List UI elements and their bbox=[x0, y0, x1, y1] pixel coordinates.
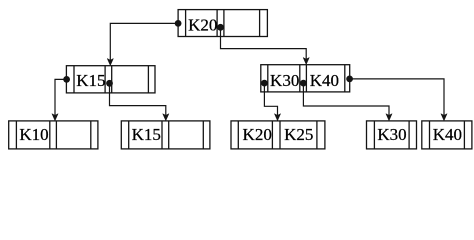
leaf L1 (K10) box bbox=[9, 121, 98, 149]
leaf L4 (K30) box bbox=[367, 121, 417, 149]
leaf L5 key label K40 bbox=[433, 125, 462, 144]
node ROOT box bbox=[178, 10, 267, 37]
wire A.P0 to leaf L1 bbox=[55, 79, 67, 116]
svg-text:K40: K40 bbox=[433, 125, 462, 144]
node ROOT pointer dot P1 bbox=[217, 24, 224, 31]
leaf L1 key label K10 bbox=[19, 125, 48, 144]
leaf L3 key label K20 bbox=[243, 125, 272, 144]
svg-text:K20: K20 bbox=[188, 15, 217, 34]
svg-text:K10: K10 bbox=[19, 125, 48, 144]
arrowhead into leaf L4 bbox=[386, 114, 392, 121]
node ROOT pointer dot P0 bbox=[175, 20, 182, 27]
node B key label K40 bbox=[310, 71, 339, 90]
node A key label K15 bbox=[76, 71, 105, 90]
arrowhead into leaf L2 bbox=[163, 114, 169, 121]
svg-text:K25: K25 bbox=[284, 125, 313, 144]
node B pointer dot P1 bbox=[300, 80, 307, 87]
node ROOT key label K20 bbox=[188, 15, 217, 34]
wire ROOT.P1 to node B bbox=[221, 27, 307, 60]
leaf L2 (K15) box bbox=[121, 121, 210, 149]
wire ROOT.P0 to node A bbox=[110, 23, 178, 61]
leaf L3 (K20 K25) box bbox=[231, 121, 325, 149]
wire B.P2 to leaf L5 bbox=[350, 79, 444, 117]
svg-text:K20: K20 bbox=[243, 125, 272, 144]
node B pointer dot P2 bbox=[346, 76, 353, 83]
node B (K30 K40) box bbox=[261, 65, 350, 92]
wire A.P1 to leaf L2 bbox=[110, 83, 166, 116]
svg-text:K15: K15 bbox=[132, 125, 161, 144]
node A pointer dot P1 bbox=[106, 80, 113, 87]
wire B.P0 to leaf L3 bbox=[264, 83, 277, 116]
arrowhead into leaf L3 bbox=[274, 114, 280, 121]
svg-text:K30: K30 bbox=[270, 71, 299, 90]
arrowhead into leaf L5 bbox=[441, 114, 447, 121]
leaf L4 key label K30 bbox=[377, 125, 406, 144]
svg-text:K15: K15 bbox=[76, 71, 105, 90]
leaf L3 key label K25 bbox=[284, 125, 313, 144]
svg-text:K30: K30 bbox=[377, 125, 406, 144]
svg-text:K40: K40 bbox=[310, 71, 339, 90]
leaf L5 (K40) box bbox=[422, 121, 472, 149]
node A pointer dot P0 bbox=[63, 76, 70, 83]
arrowhead into node A bbox=[107, 59, 113, 66]
leaf L2 key label K15 bbox=[132, 125, 161, 144]
arrowhead into node B bbox=[303, 58, 309, 65]
node A (K15) box bbox=[66, 66, 155, 93]
node B pointer dot P0 bbox=[261, 80, 268, 87]
wire B.P1 to leaf L4 bbox=[303, 83, 389, 116]
arrowhead into leaf L1 bbox=[52, 114, 58, 121]
node B key label K30 bbox=[270, 71, 299, 90]
